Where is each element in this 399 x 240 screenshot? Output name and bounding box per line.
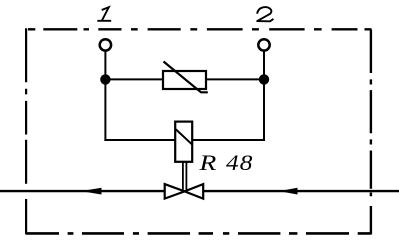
wire node A to varistor — [105, 78, 163, 80]
svg-text:48: 48 — [226, 151, 254, 175]
terminal 2 — [258, 39, 269, 50]
enclosure boundary bottom edge — [26, 232, 371, 235]
flow line (pipe) right segment — [203, 190, 399, 192]
wire lower rail right — [192, 139, 265, 141]
label terminal 2 — [257, 7, 273, 21]
node A (junction dot left) — [100, 74, 110, 84]
wire varistor to node B — [206, 78, 264, 80]
terminal 1 — [100, 39, 111, 50]
valve left triangle — [165, 184, 185, 199]
enclosure boundary (dash-dot border) top edge — [28, 28, 372, 30]
varistor body — [163, 71, 206, 89]
flow line (pipe) left segment — [0, 190, 165, 192]
enclosure boundary right edge — [370, 30, 372, 235]
valve right triangle — [185, 184, 204, 199]
solenoid diagonal — [176, 129, 192, 144]
solenoid coil body — [175, 122, 192, 162]
label terminal 1 — [98, 7, 110, 21]
varistor diagonal stroke with tail — [164, 62, 208, 93]
wire terminal1 down to lower rail — [104, 51, 106, 142]
enclosure boundary left edge — [25, 28, 27, 234]
wire lower rail left — [104, 139, 175, 141]
wire terminal2 down to lower rail — [263, 51, 265, 142]
node B (junction dot right) — [259, 74, 269, 84]
flow direction arrow left (points left) — [81, 188, 102, 195]
valve stem (double line) left — [182, 162, 184, 190]
svg-text:R: R — [198, 151, 216, 175]
valve stem (double line) right — [185, 162, 187, 190]
flow direction arrow right (points left) — [279, 188, 298, 195]
